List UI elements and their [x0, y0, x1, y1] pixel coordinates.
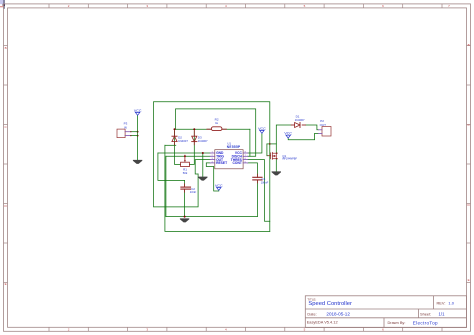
potentiometer R1 50k [181, 155, 190, 175]
wire RESET pin4 to VCC flag [206, 163, 219, 191]
svg-text:1N4007: 1N4007 [295, 118, 305, 122]
wire inner top loop DISCH to diode bus [176, 109, 256, 156]
svg-text:Date:: Date: [307, 311, 316, 316]
wire bottom gnd bus [166, 216, 258, 218]
svg-text:100nF: 100nF [261, 180, 269, 184]
wire jog to Q1 gate [267, 143, 276, 145]
svg-text:Sheet:: Sheet: [420, 311, 431, 316]
ground under chip [198, 177, 207, 181]
svg-text:Drawn By:: Drawn By: [388, 320, 406, 325]
VCC flag RESET (below chip) [215, 184, 223, 190]
diode D1 1N4007 [291, 114, 305, 127]
wire bottom loop [165, 145, 270, 231]
wire pin1 row down to C2 top [158, 153, 185, 180]
svg-text:1N4007: 1N4007 [198, 139, 208, 143]
svg-text:OUT: OUT [320, 123, 327, 127]
capacitor C1 100nF [253, 174, 269, 184]
wire VCC flag P3 down to ground [137, 115, 139, 160]
capacitor C2 10nF [181, 184, 197, 194]
ground under C2 [180, 218, 189, 222]
svg-text:VCC: VCC [215, 184, 223, 188]
wire TRIG pin2 row [166, 155, 210, 157]
resistor R2 1k [207, 117, 227, 130]
wire C2 lead up [184, 180, 186, 187]
op-amp U1 NE555P timer [210, 141, 248, 169]
diode D2 1N4007 [172, 130, 188, 144]
sheet corner marker [0, 0, 5, 9]
svg-text:VCC: VCC [284, 132, 292, 136]
wire TRIG drop to gnd bus [165, 156, 167, 216]
svg-text:VCC: VCC [258, 127, 266, 131]
junction dots [137, 128, 271, 217]
svg-text:IRFZ44NPBF: IRFZ44NPBF [282, 158, 297, 161]
wire staircase OUT pin3 [195, 160, 210, 174]
transistor Q1 IRFZ44NPBF [268, 152, 297, 160]
connector P2 OUT [318, 119, 331, 136]
wire THRES pin6 loop [248, 160, 270, 222]
svg-text:B: B [468, 43, 470, 47]
svg-text:RESET: RESET [216, 161, 227, 165]
svg-text:Speed Controller: Speed Controller [308, 301, 352, 307]
svg-text:IN: IN [124, 125, 127, 129]
svg-text:NE555P: NE555P [227, 145, 241, 149]
connector P3 [117, 122, 138, 138]
wire Q1 source to ground [275, 159, 277, 172]
diode D3 1N4007 [192, 130, 208, 144]
wire Q1 drain up [276, 125, 291, 153]
wire diode top bus [175, 128, 250, 130]
wire CONT pin5 to C1 top [248, 163, 258, 177]
svg-text:VCC: VCC [134, 109, 142, 113]
svg-text:E: E [468, 278, 470, 282]
svg-text:10nF: 10nF [190, 190, 197, 194]
VCC flag P2 [284, 132, 292, 139]
svg-text:ElectroTop: ElectroTop [413, 321, 438, 326]
svg-text:E: E [5, 282, 7, 286]
wire C1 bottom drop [256, 180, 258, 217]
wire D3 bottom to R1 right [189, 131, 194, 164]
wire D2 bottom to R1 left [175, 131, 181, 164]
wire P2 pin2 to VCC flag [288, 133, 318, 139]
title block [305, 296, 466, 328]
VCC flag pin8 [258, 127, 266, 134]
wire ground drop under chip [202, 153, 204, 177]
wire top outer loop OUT net [154, 102, 270, 232]
wire C2 lead down [184, 189, 186, 217]
svg-text:50k: 50k [183, 171, 188, 175]
svg-text:2018-05-12: 2018-05-12 [326, 312, 350, 317]
svg-text:1/1: 1/1 [439, 312, 446, 317]
svg-text:B: B [5, 46, 7, 50]
wire D1 right to P2 pin1 [305, 125, 318, 130]
svg-text:EasyEDA V5.4.12: EasyEDA V5.4.12 [307, 319, 338, 324]
ground Q1 source [272, 171, 281, 175]
wire GND pin1 row [158, 152, 210, 154]
wire stub bus to D2 lead [165, 144, 176, 146]
svg-text:REV:: REV: [437, 301, 446, 306]
svg-text:1.0: 1.0 [448, 301, 454, 306]
wire VCC pin8 row [248, 133, 262, 153]
ground P3 [133, 160, 142, 164]
svg-text:1N4007: 1N4007 [178, 139, 188, 143]
svg-text:CONT: CONT [233, 161, 242, 165]
wire R2 right drop to DISCH row [249, 129, 251, 156]
VCC flag P3 [134, 109, 142, 116]
